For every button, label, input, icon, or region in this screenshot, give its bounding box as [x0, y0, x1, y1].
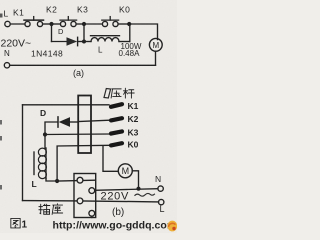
junction dot below B — [82, 40, 86, 44]
inductor L (a) — [91, 38, 119, 42]
wire node A to K2 — [52, 23, 61, 25]
wire K3 rung (b) — [45, 133, 109, 136]
terminal L (a) — [5, 21, 10, 26]
socket pin 1 — [77, 177, 83, 183]
wire K0 rung (b) — [57, 145, 109, 181]
edge smudge 3 — [0, 185, 2, 190]
N rail (a) — [10, 64, 156, 66]
wire node B down — [83, 24, 85, 42]
edge smudge 2 — [0, 136, 2, 141]
outer left wire (b) — [22, 105, 24, 201]
terminal N (b) — [158, 186, 163, 191]
wire to diode D anode — [52, 41, 67, 43]
wire to inductor — [84, 41, 91, 43]
riser to node C — [129, 24, 131, 42]
arrow wedge K2 — [111, 118, 122, 120]
switch K2 — [60, 21, 65, 26]
hanzi 插 — [39, 204, 50, 214]
wire inductor to node C riser — [119, 41, 130, 43]
arrow wedge K1 — [111, 104, 122, 107]
label 图1 — [11, 218, 28, 230]
socket pin 4 stem — [91, 216, 93, 217]
switch K3 — [102, 21, 107, 26]
wire diode to node B drop — [78, 41, 84, 43]
label 插座 — [39, 204, 63, 215]
inductor core bar (b) — [33, 152, 35, 175]
node dot (b) — [43, 132, 47, 136]
edge smudge 1 — [0, 120, 2, 125]
diode D (b) — [57, 117, 59, 127]
busbar (press-bar switch stack) — [78, 96, 91, 154]
hanzi 杆 — [123, 88, 134, 98]
inductor core bar (a) — [91, 35, 120, 37]
wire diode to busbar K2 rung — [70, 121, 78, 123]
node A — [49, 22, 53, 26]
wire motor to N rail — [155, 51, 157, 65]
N rail from socket pin 2 — [95, 189, 158, 191]
socket pin 3 — [77, 198, 83, 204]
hanzi 图 — [11, 218, 20, 228]
wire K1 rung (b) — [23, 104, 110, 106]
arrow wedge K3 — [111, 131, 122, 133]
node B — [82, 22, 86, 26]
coil bottom wire — [46, 178, 57, 181]
diode D (b) cathode wire — [45, 122, 58, 135]
diode D 1N4148 — [67, 37, 78, 45]
motor right wire (b) — [132, 171, 138, 189]
label 压杆 — [111, 88, 134, 98]
wire node A down — [51, 24, 53, 42]
terminal N (a) — [4, 63, 9, 68]
socket box — [74, 174, 96, 218]
hanzi 座 — [52, 204, 63, 215]
junction dot coil row — [55, 179, 59, 183]
socket pin 2 — [89, 188, 95, 194]
bottom wire through socket pin3 to terminal L — [23, 201, 159, 202]
motor M (a) — [149, 38, 162, 51]
wire node B to K3 — [84, 23, 102, 25]
socket pin 4 — [89, 210, 95, 216]
coil row to socket pin1 — [57, 179, 94, 182]
arrow wedge K0 — [111, 143, 122, 145]
inductor L (b) — [45, 148, 47, 179]
coil riser (b) — [44, 135, 46, 149]
hanzi 压 — [111, 89, 121, 98]
junction dot motor right — [136, 187, 140, 191]
wire K3 to node C — [118, 23, 129, 25]
terminal L (b) — [159, 199, 164, 204]
motor M (b) — [118, 164, 132, 178]
press-bar icon — [104, 89, 111, 99]
wire node C to motor — [129, 24, 157, 40]
wire K1 to node A — [43, 23, 52, 25]
watermark logo — [167, 221, 177, 232]
node C — [127, 22, 131, 26]
switch K1 — [25, 21, 30, 26]
edge smudge top — [0, 14, 3, 18]
wire K2 to node B — [76, 23, 84, 25]
wire busbar bottom to motor drop — [103, 146, 118, 171]
wire L to K1 — [10, 23, 25, 25]
